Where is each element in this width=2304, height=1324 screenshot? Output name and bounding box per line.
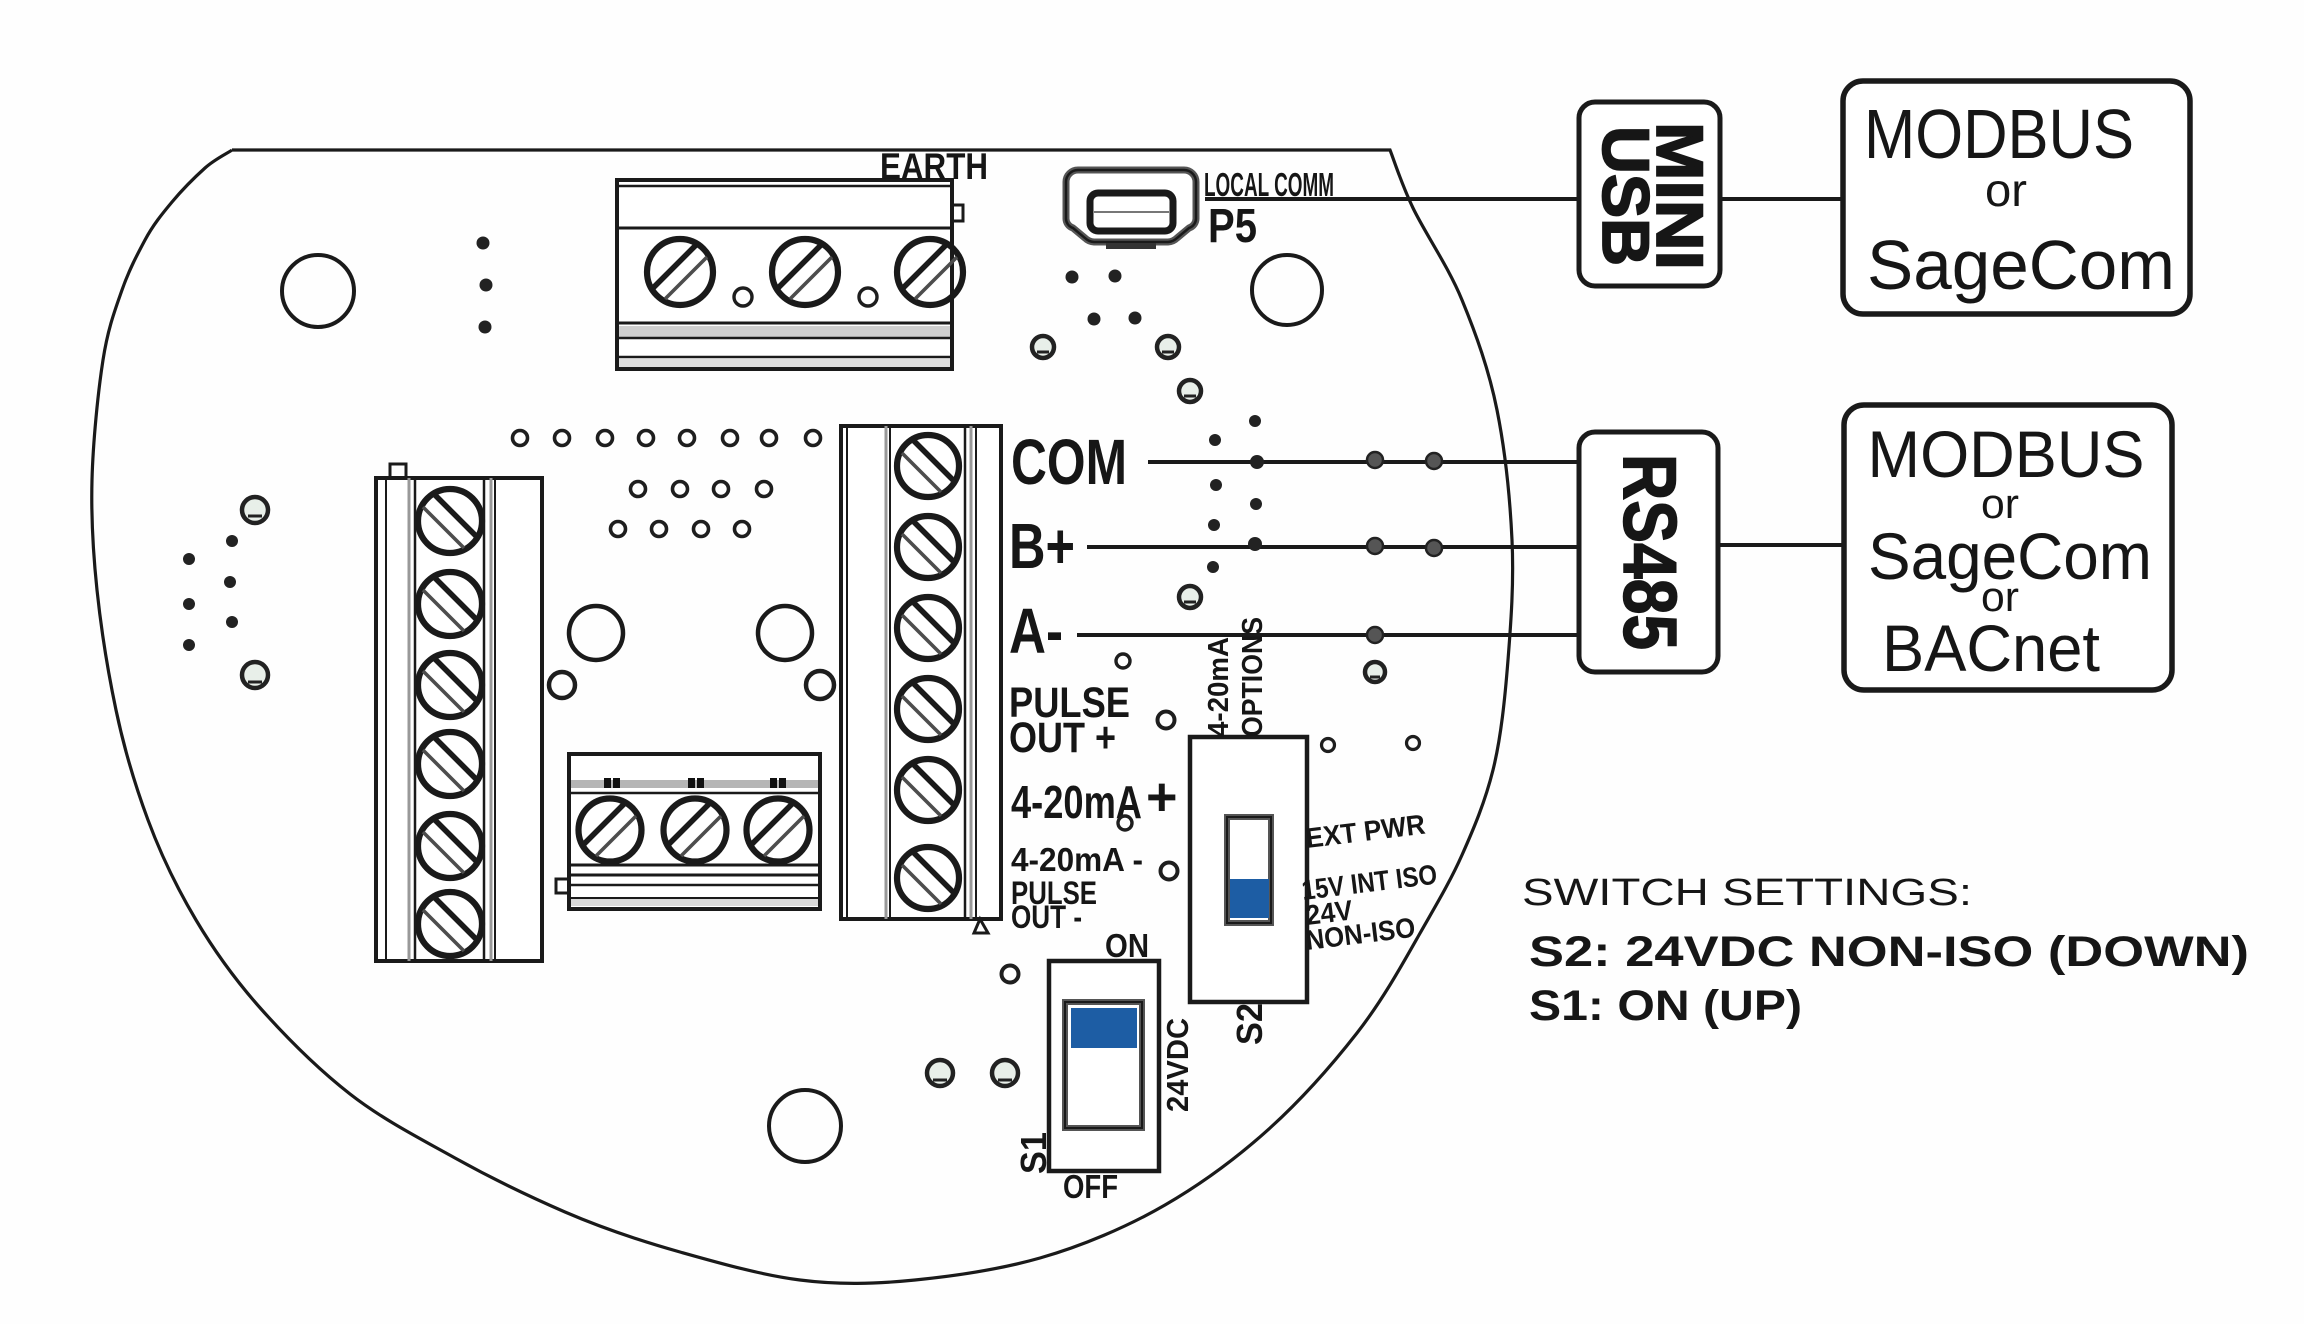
svg-text:4-20mA: 4-20mA xyxy=(1011,776,1142,828)
via dots column top-left xyxy=(477,237,490,250)
pads on wires xyxy=(1367,452,1383,468)
left block screw 2 xyxy=(418,572,482,636)
rings right of S2 xyxy=(1322,739,1335,752)
svg-text:ON: ON xyxy=(1105,927,1149,964)
wire B+ to RS485 xyxy=(1087,545,1579,549)
pads near USB xyxy=(1066,271,1079,284)
svg-text:OUT -: OUT - xyxy=(1011,899,1082,935)
bottom block screw 1 xyxy=(579,799,642,862)
wire MINI USB box to MODBUS/SageCom box xyxy=(1720,197,1843,201)
EARTH screw 1 xyxy=(647,239,713,305)
svg-text:A-: A- xyxy=(1009,595,1063,667)
middle block screw 4 xyxy=(897,678,959,740)
middle block bottom tab xyxy=(974,919,988,933)
pads above S1 xyxy=(927,1060,953,1086)
left pad cluster xyxy=(242,497,268,523)
svg-text:P5: P5 xyxy=(1208,200,1257,253)
svg-text:COM: COM xyxy=(1011,426,1127,498)
svg-text:MINIUSB: MINIUSB xyxy=(1589,122,1717,270)
EARTH screw 3 xyxy=(897,239,963,305)
DIP switch S1 xyxy=(1049,961,1159,1171)
bottom block screw 3 xyxy=(747,799,810,862)
box MODBUS or SageCom or BACnet xyxy=(1844,405,2172,690)
svg-text:4-20mA: 4-20mA xyxy=(1203,637,1235,737)
left block screw 3 xyxy=(418,653,482,717)
wire COM to RS485 xyxy=(1148,460,1579,464)
wire RS485 to MODBUS/SageCom/BACnet box xyxy=(1718,543,1844,547)
mounting hole center-right xyxy=(758,606,812,660)
svg-text:RS485: RS485 xyxy=(1608,454,1692,650)
terminal block middle (6 positions) xyxy=(841,426,1001,933)
mini USB connector P5 xyxy=(1066,170,1196,249)
svg-text:BACnet: BACnet xyxy=(1882,611,2100,685)
PCB board outline xyxy=(92,150,1513,1283)
pad column near RS485 wires xyxy=(1249,415,1261,427)
box MODBUS or SageCom xyxy=(1843,81,2190,314)
wire LOCAL COMM to MINI USB box xyxy=(1205,197,1577,201)
svg-text:OFF: OFF xyxy=(1063,1168,1118,1205)
bottom block side tab xyxy=(556,879,569,893)
svg-text:24VDC: 24VDC xyxy=(1160,1018,1195,1112)
terminal block left (6 positions) xyxy=(376,464,542,961)
S1 slider blue (up) xyxy=(1071,1008,1137,1048)
left block screw 4 xyxy=(418,732,482,796)
RS485 box xyxy=(1579,432,1718,672)
mounting hole center-left xyxy=(569,606,623,660)
via row 2 xyxy=(631,482,646,497)
terminal block bottom (3 positions) xyxy=(556,754,820,909)
middle block screw 2 xyxy=(897,516,959,578)
svg-text:MODBUS: MODBUS xyxy=(1864,95,2134,173)
left block screw 5 xyxy=(418,814,482,878)
svg-text:S1: S1 xyxy=(1013,1132,1054,1174)
mounting hole top-left xyxy=(282,255,354,327)
MINI USB box xyxy=(1579,102,1720,286)
svg-text:SageCom: SageCom xyxy=(1867,226,2175,304)
svg-text:OPTIONS: OPTIONS xyxy=(1237,617,1269,737)
wire A- to RS485 xyxy=(1077,633,1579,637)
via row 3 xyxy=(611,522,626,537)
EARTH wire hole 1 xyxy=(734,288,752,306)
svg-text:or: or xyxy=(1985,164,2027,216)
mounting hole bottom xyxy=(769,1090,841,1162)
S2 slider blue (down) xyxy=(1230,879,1269,918)
svg-text:S2: 24VDC NON-ISO (DOWN): S2: 24VDC NON-ISO (DOWN) xyxy=(1529,928,2249,976)
small hole left-center xyxy=(549,672,575,698)
svg-text:S1: ON (UP): S1: ON (UP) xyxy=(1529,982,1802,1030)
middle block screw 6 xyxy=(897,847,959,909)
left block tab xyxy=(390,464,406,478)
svg-text:OUT +: OUT + xyxy=(1009,714,1116,762)
EARTH wire hole 2 xyxy=(859,288,877,306)
middle block screw 1 xyxy=(897,435,959,497)
left block screw 6 xyxy=(418,892,482,956)
svg-text:EARTH: EARTH xyxy=(880,146,988,187)
left block screw 1 xyxy=(418,489,482,553)
EARTH block tab xyxy=(952,205,963,221)
middle block screw 3 xyxy=(897,597,959,659)
mounting hole right of USB xyxy=(1252,255,1322,325)
small hole right-center xyxy=(806,671,834,699)
svg-text:B+: B+ xyxy=(1009,510,1075,582)
svg-text:4-20mA -: 4-20mA - xyxy=(1011,841,1143,878)
small rings near 4-20mA labels xyxy=(1116,654,1130,668)
middle block screw 5 xyxy=(897,759,959,821)
DIP switch S2 xyxy=(1190,737,1307,1002)
bottom block screw 2 xyxy=(664,799,727,862)
svg-text:S2: S2 xyxy=(1229,1003,1270,1045)
via row 1 xyxy=(513,431,528,446)
terminal block EARTH xyxy=(617,180,963,369)
EARTH screw 2 xyxy=(772,239,838,305)
svg-text:SWITCH SETTINGS:: SWITCH SETTINGS: xyxy=(1522,872,1972,914)
svg-text:+: + xyxy=(1146,767,1178,827)
